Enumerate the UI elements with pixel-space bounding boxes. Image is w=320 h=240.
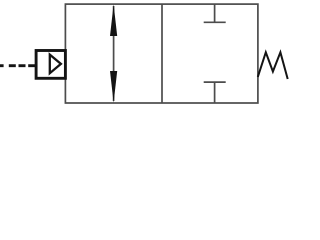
return spring <box>258 52 288 79</box>
flow arrow stem <box>113 6 115 101</box>
flow arrow head top <box>110 4 117 36</box>
flow arrow head bottom <box>110 71 117 103</box>
cell divider <box>161 4 163 103</box>
pilot box <box>36 51 65 79</box>
pilot line dash 2 <box>9 64 16 67</box>
blocked port T bottom: crossbar <box>204 81 226 83</box>
pilot line dash 1 <box>0 64 4 67</box>
blocked port T top: stem <box>214 5 216 23</box>
blocked port T top: crossbar <box>204 21 226 23</box>
pilot line dash 4 <box>28 64 36 67</box>
pilot triangle <box>50 55 61 74</box>
valve body outline <box>65 4 258 103</box>
blocked port T bottom: stem <box>214 82 216 103</box>
pilot line dash 3 <box>19 64 26 67</box>
